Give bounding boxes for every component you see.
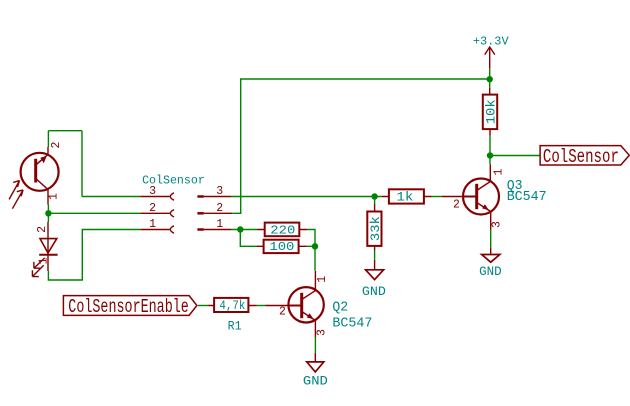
resistor R1 4,7k	[208, 298, 257, 312]
svg-text:2: 2	[216, 202, 223, 215]
svg-text:100: 100	[269, 240, 294, 254]
LED D1	[32, 222, 57, 277]
ground below 33k	[366, 260, 384, 280]
svg-text:ColSensor: ColSensor	[543, 146, 619, 168]
wire phototransistor collector up and over	[48, 131, 140, 197]
wire 220/100 right side to Q2 collector	[307, 230, 316, 271]
wire LED cathode around to row1	[48, 230, 140, 281]
wire R1 to Q2 base	[257, 305, 266, 307]
svg-text:3: 3	[315, 329, 328, 336]
svg-text:ColSensorEnable: ColSensorEnable	[68, 296, 189, 318]
wire 1k to Q3 base	[432, 196, 442, 198]
svg-text:BC547: BC547	[507, 190, 547, 205]
svg-text:2: 2	[453, 199, 460, 212]
svg-text:33k: 33k	[369, 216, 383, 241]
wire Q2 emitter to GND	[314, 337, 316, 353]
svg-text:R1: R1	[228, 319, 242, 333]
light arrow into phototransistor 1	[9, 181, 23, 209]
resistor 33k	[367, 204, 381, 250]
ground below Q3	[482, 248, 500, 263]
wire label to R1	[198, 305, 208, 307]
wire row2 up and across top	[232, 79, 490, 213]
transistor Q2	[266, 271, 324, 338]
resistor 220	[257, 223, 307, 237]
svg-text:1: 1	[47, 193, 60, 200]
node ColSensor output	[487, 152, 493, 158]
label ColSensor (output)	[540, 146, 629, 165]
svg-text:3: 3	[491, 221, 504, 228]
svg-text:2: 2	[36, 226, 49, 233]
svg-text:2: 2	[149, 202, 156, 215]
node 33k tap	[371, 193, 377, 199]
wire Q3 collector to ColSensor label	[490, 155, 540, 157]
svg-text:4,7k: 4,7k	[219, 299, 245, 313]
light arrow into phototransistor 2	[12, 190, 23, 209]
wire 10k to Q3 collector	[489, 136, 491, 165]
ground below Q2	[307, 353, 324, 372]
svg-text:GND: GND	[362, 284, 386, 299]
node junction dots	[45, 76, 493, 250]
wire +3.3V to 10k	[489, 68, 491, 88]
svg-text:1: 1	[316, 276, 329, 283]
connector ColSensor (female side)	[140, 193, 174, 233]
svg-text:GND: GND	[479, 264, 502, 279]
transistor Q3	[442, 164, 499, 229]
svg-text:1: 1	[149, 218, 156, 231]
wire row2 to connector	[48, 212, 140, 214]
label ColSensorEnable	[63, 296, 197, 316]
svg-text:GND: GND	[303, 374, 328, 389]
LED light arrow 2	[32, 265, 43, 276]
node row1 branch	[237, 226, 243, 232]
node 220/100 join	[312, 243, 318, 249]
svg-text:1: 1	[216, 218, 223, 231]
svg-text:3: 3	[149, 185, 156, 198]
wire row3 right to 1k	[231, 196, 381, 198]
svg-text:3: 3	[216, 185, 223, 198]
node +3.3V rail	[487, 76, 493, 82]
LED light arrow 1	[34, 258, 45, 268]
wire phototransistor emitter to LED anode	[47, 205, 49, 222]
wire row1 to 220/100	[231, 230, 257, 247]
phototransistor	[21, 147, 59, 205]
svg-text:+3.3V: +3.3V	[473, 35, 510, 49]
svg-text:220: 220	[270, 223, 295, 237]
resistor 1k	[382, 189, 432, 203]
svg-text:Q2: Q2	[332, 300, 348, 315]
svg-text:BC547: BC547	[332, 316, 372, 331]
wire 33k stubs	[374, 197, 376, 260]
svg-text:1k: 1k	[396, 190, 413, 205]
svg-text:10k: 10k	[484, 99, 498, 124]
resistor 100	[256, 240, 306, 253]
svg-text:1: 1	[492, 168, 505, 175]
wire	[48, 68, 540, 353]
svg-text:1: 1	[38, 257, 51, 264]
resistor 10k	[483, 88, 497, 136]
node photo/LED/row2	[45, 210, 51, 216]
connector pin header (male side)	[197, 195, 232, 231]
wire Q3 emitter to GND	[490, 230, 492, 248]
svg-text:2: 2	[279, 306, 286, 319]
power +3.3V symbol	[485, 47, 495, 68]
svg-text:2: 2	[50, 141, 63, 148]
